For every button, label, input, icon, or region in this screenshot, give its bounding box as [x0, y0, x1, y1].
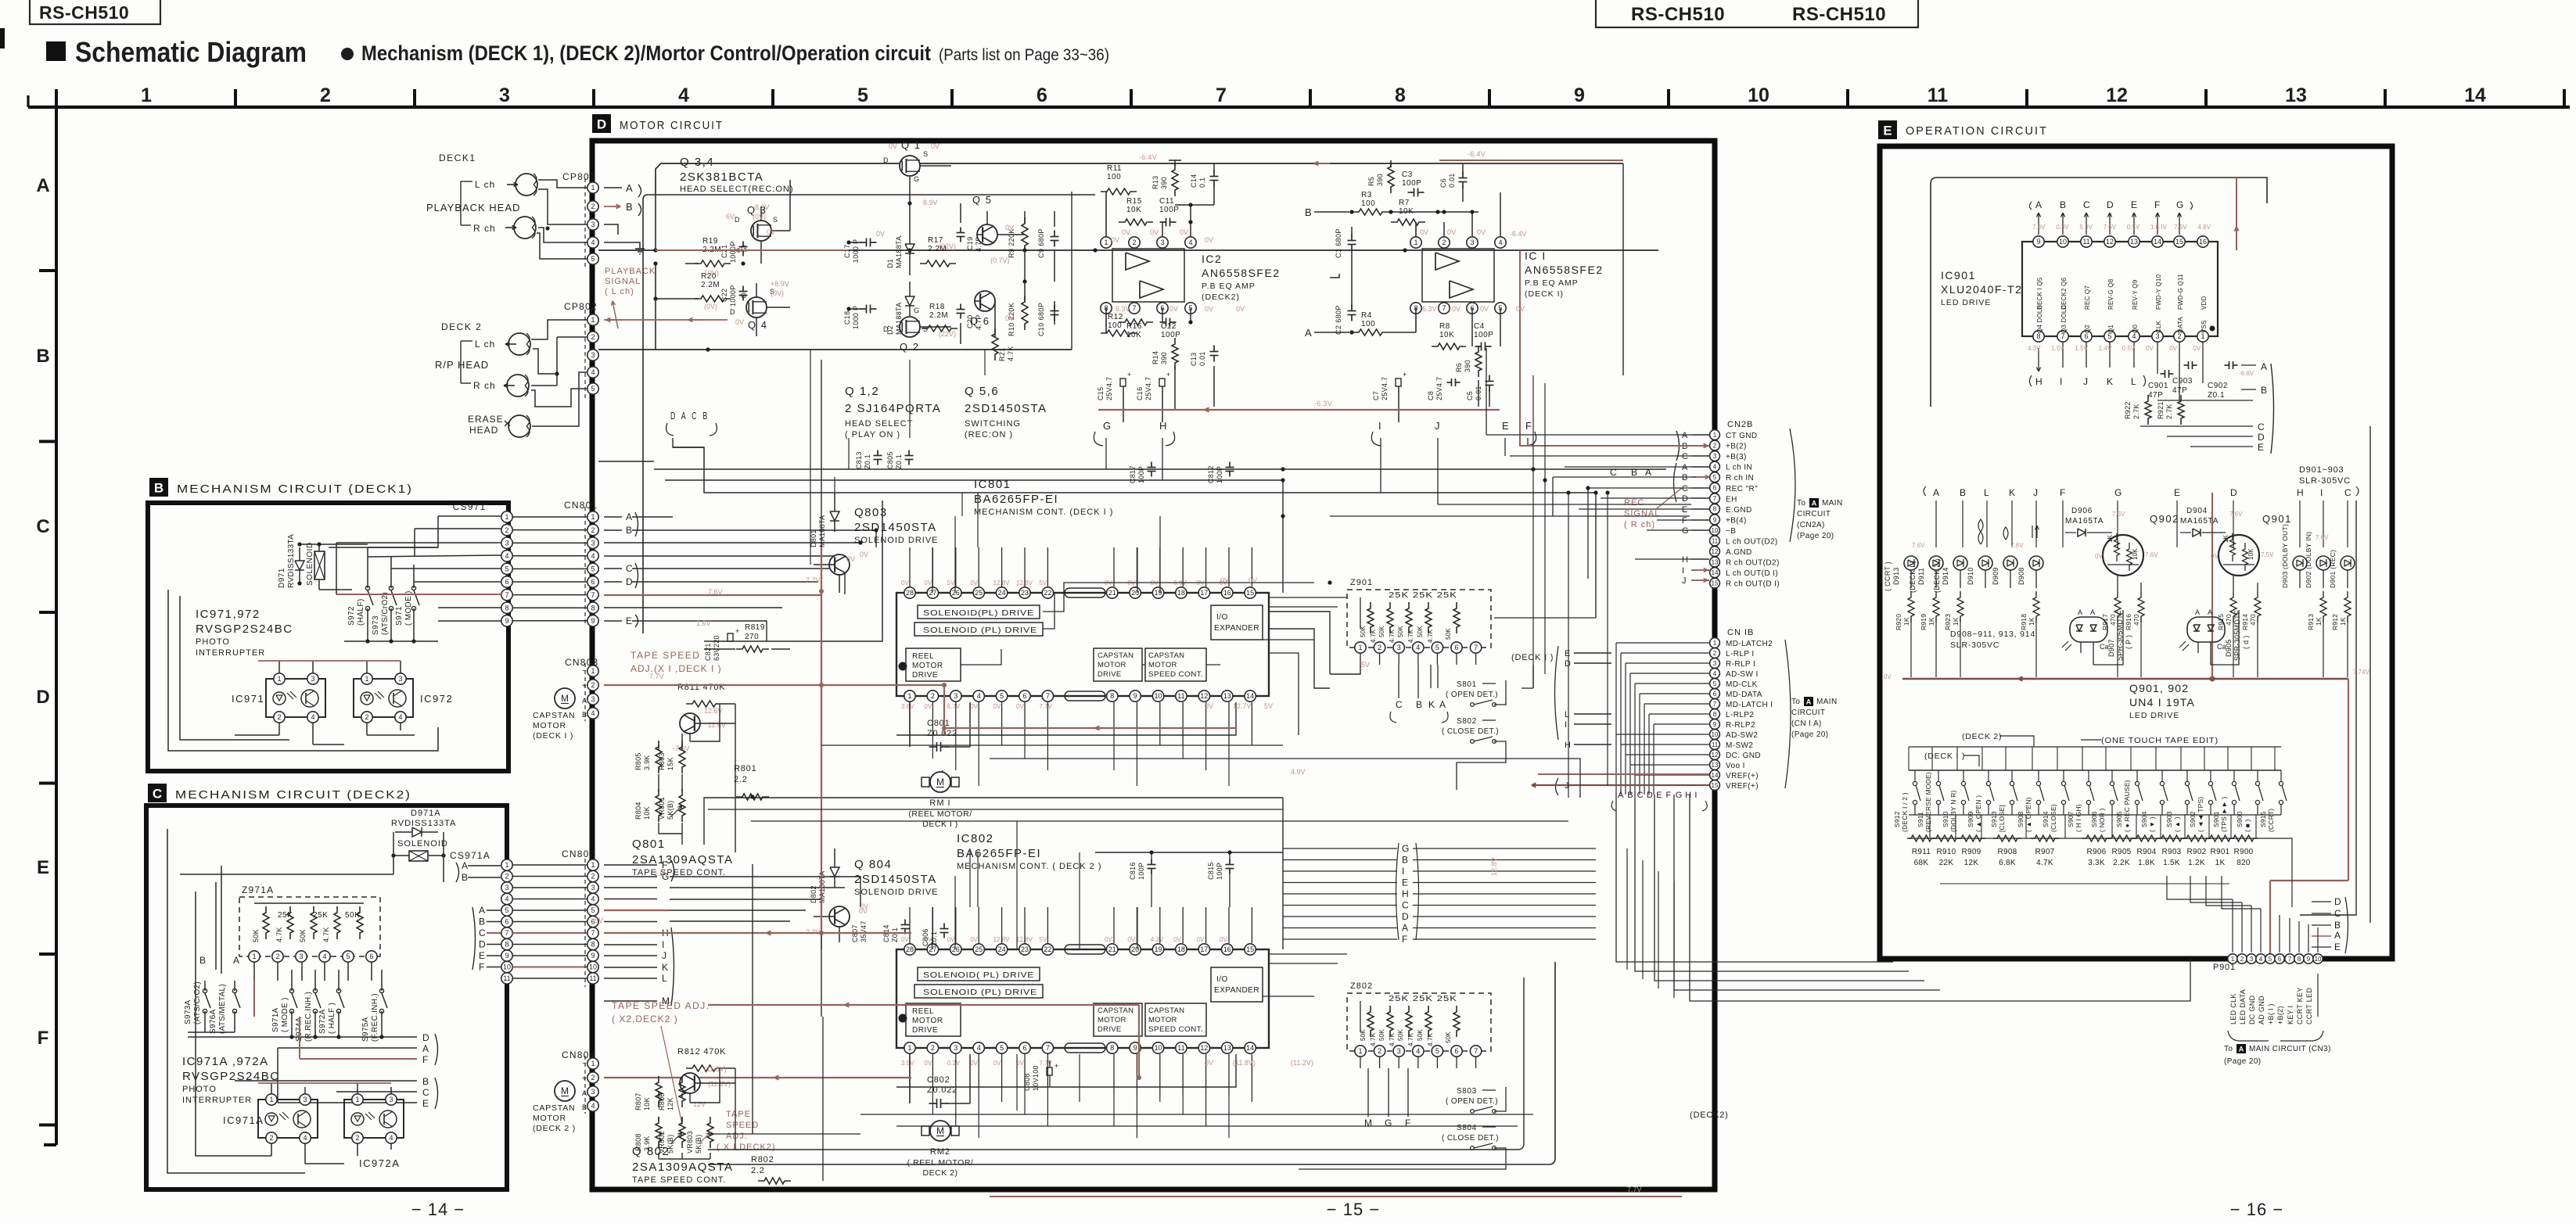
letters A-G above IC901	[2030, 199, 2193, 235]
svg-text:50K: 50K	[1445, 628, 1452, 640]
svg-text:0.01: 0.01	[1448, 173, 1456, 188]
svg-text:5: 5	[505, 565, 508, 573]
red arrow at CP802 pin1	[606, 318, 622, 321]
svg-text:C15: C15	[1097, 387, 1105, 400]
capacitor C15 25V4.7 / C16 25V4.7	[1097, 371, 1170, 422]
svg-text:16: 16	[2199, 238, 2207, 246]
svg-text:(DECK I): (DECK I)	[1525, 289, 1564, 299]
svg-text:4: 4	[591, 368, 595, 376]
svg-text:4: 4	[678, 84, 689, 106]
svg-text:4.7K: 4.7K	[1427, 629, 1434, 643]
svg-text:K: K	[2009, 487, 2015, 498]
svg-text:R916: R916	[2125, 614, 2132, 630]
top ruler ticks and numbers	[28, 84, 2570, 107]
svg-text:R921: R921	[2157, 401, 2165, 419]
svg-text:0V: 0V	[1480, 305, 1489, 313]
svg-text:S803: S803	[1457, 1087, 1477, 1096]
switch S912 (DECK I / 2 )	[1893, 770, 1920, 832]
subtitle Mechanism/Motor Control/Operation circuit	[341, 41, 1109, 65]
svg-text:TAPE SPEED CONT.: TAPE SPEED CONT.	[632, 1175, 726, 1185]
svg-text:E: E	[2174, 487, 2180, 498]
svg-text:C801: C801	[927, 719, 950, 728]
svg-text:3: 3	[591, 221, 595, 228]
svg-text:I: I	[2060, 376, 2062, 387]
svg-text:0.5V: 0.5V	[2127, 224, 2140, 231]
svg-text:I: I	[1682, 566, 1684, 576]
svg-text:2SD1450STA: 2SD1450STA	[965, 402, 1047, 415]
svg-text:15: 15	[1712, 782, 1719, 789]
svg-text:C6: C6	[1439, 178, 1447, 188]
svg-text:9: 9	[2036, 238, 2040, 246]
svg-text:C821: C821	[704, 643, 712, 661]
diode D1 MA188TA	[886, 177, 914, 275]
svg-text:0V: 0V	[1005, 314, 1014, 322]
connector CN802	[562, 848, 598, 984]
wires CS971 to CN801	[512, 517, 587, 621]
svg-text:VSS: VSS	[2201, 320, 2208, 333]
resistor R804 10K	[634, 789, 662, 822]
svg-text:R908: R908	[1997, 848, 2017, 856]
svg-text:6: 6	[505, 918, 508, 926]
svg-text:4: 4	[1713, 670, 1717, 677]
svg-text:R3: R3	[1361, 191, 1372, 199]
svg-text:15K: 15K	[666, 757, 674, 770]
svg-text:SLR-305VC: SLR-305VC	[2299, 476, 2351, 486]
resistor R6 390	[1455, 346, 1482, 377]
wire rail B row y447	[598, 347, 1072, 351]
svg-text:DATA: DATA	[2177, 317, 2184, 333]
svg-text:S973: S973	[372, 615, 380, 635]
LED D913 (CCRT)	[1884, 556, 1918, 591]
svg-text:G: G	[2176, 199, 2183, 210]
svg-text:2: 2	[931, 1044, 935, 1052]
svg-text:S973A: S973A	[184, 999, 192, 1024]
svg-text:E: E	[1656, 791, 1662, 800]
svg-text:Z0.1: Z0.1	[891, 927, 899, 942]
svg-text:( ■ ): ( ■ )	[2244, 819, 2251, 832]
wires IC2 area	[1106, 192, 1214, 411]
svg-text:4: 4	[591, 1102, 595, 1110]
svg-text:(CN I A): (CN I A)	[1791, 719, 1822, 728]
svg-text:DECK 2): DECK 2)	[923, 1168, 958, 1178]
switch S972 (HALF)	[347, 586, 373, 626]
svg-text:C21: C21	[720, 245, 728, 258]
wires playback head to CP801	[537, 180, 587, 259]
svg-text:C: C	[2344, 487, 2351, 498]
svg-text:50K: 50K	[252, 929, 260, 942]
diode D971 RVDISS133TA	[278, 534, 304, 588]
box E frame	[1880, 146, 2392, 959]
svg-text:A: A	[36, 175, 49, 196]
svg-text:(DECK I / 2 ): (DECK I / 2 )	[1901, 792, 1909, 832]
svg-text:D: D	[2334, 896, 2341, 907]
svg-text:S902: S902	[2189, 811, 2197, 827]
wires Z971A pins to switches	[205, 963, 382, 1017]
svg-text:CAPSTAN: CAPSTAN	[1098, 651, 1134, 660]
svg-text:2: 2	[591, 1074, 595, 1082]
svg-text:68K: 68K	[1914, 859, 1929, 867]
resistor R902 1.2K	[2183, 835, 2211, 867]
svg-text:-7.6V: -7.6V	[673, 744, 690, 752]
red trace mid rail y524	[1098, 308, 1500, 422]
trimmer VR802 5K(B)	[658, 1117, 685, 1153]
svg-text:I/O: I/O	[1216, 975, 1228, 984]
svg-text:25V4.7: 25V4.7	[1435, 377, 1443, 400]
svg-text:6: 6	[1037, 84, 1047, 106]
svg-text:2: 2	[1132, 239, 1136, 246]
svg-text:7.5V: 7.5V	[2261, 551, 2274, 558]
svg-text:( OPEN DET.): ( OPEN DET.)	[1446, 1097, 1498, 1106]
svg-text:R ch OUT(D2): R ch OUT(D2)	[1726, 559, 1780, 568]
svg-text:R21: R21	[998, 348, 1006, 361]
svg-text:R805: R805	[634, 752, 642, 770]
svg-text:D: D	[1682, 494, 1688, 504]
svg-text:L ch OUT(D2): L ch OUT(D2)	[1726, 538, 1778, 547]
svg-text:12: 12	[1712, 752, 1719, 759]
svg-text:1: 1	[1713, 640, 1717, 647]
svg-text:Z901: Z901	[1350, 578, 1373, 587]
resistor R21 4.7K	[992, 328, 1015, 361]
wire bus CN801 to IC801	[673, 517, 896, 641]
svg-text:4: 4	[977, 692, 981, 700]
svg-text:3: 3	[1397, 644, 1401, 651]
wire bus CN802 to IC802	[604, 865, 896, 949]
svg-text:Q 4: Q 4	[748, 319, 767, 331]
svg-text:R803: R803	[658, 752, 666, 770]
svg-text:0V: 0V	[1205, 702, 1213, 710]
resistor R904 1.8K	[2132, 835, 2161, 867]
svg-text:0V: 0V	[1477, 228, 1486, 236]
LED D902 (DOLBY IN)	[2305, 532, 2330, 588]
svg-text:21: 21	[1108, 589, 1116, 597]
resistor R803 15K	[658, 741, 685, 773]
svg-text:Q801: Q801	[632, 838, 666, 851]
svg-text:TAPE SPEED: TAPE SPEED	[631, 650, 700, 661]
svg-text:REV-Y Q9: REV-Y Q9	[2132, 279, 2139, 310]
svg-text:0V: 0V	[1122, 228, 1130, 236]
svg-text:4.7K: 4.7K	[322, 927, 330, 942]
svg-text:IC801: IC801	[974, 478, 1011, 491]
IC802 BA6265FP-EI body	[896, 944, 1269, 1053]
svg-text:R900: R900	[2233, 848, 2253, 856]
svg-text:RVSGP2S24BC: RVSGP2S24BC	[196, 622, 293, 636]
switch S913 [CLOSE]	[1990, 770, 2017, 832]
svg-text:20: 20	[1131, 589, 1139, 597]
svg-text:12: 12	[2106, 84, 2128, 106]
svg-text:0V: 0V	[846, 555, 855, 563]
svg-text:C14: C14	[1190, 174, 1198, 188]
svg-text:A: A	[2261, 361, 2267, 372]
wire mid long horizontals	[821, 745, 1715, 798]
svg-text:0V: 0V	[1111, 236, 1119, 244]
svg-text:4: 4	[591, 552, 595, 560]
svg-text:17: 17	[1200, 945, 1208, 953]
svg-text:0V: 0V	[1205, 236, 1213, 244]
svg-text:12.7V: 12.7V	[1233, 702, 1252, 710]
svg-text:C: C	[2083, 199, 2090, 210]
svg-text:( CCRT ): ( CCRT )	[1884, 561, 1892, 591]
connector P901	[2213, 954, 2323, 972]
svg-text:1: 1	[252, 953, 256, 960]
svg-text:CAPSTAN: CAPSTAN	[1098, 1006, 1134, 1015]
svg-text:13: 13	[1712, 558, 1719, 565]
svg-text:-6.4V: -6.4V	[1510, 230, 1527, 238]
red trace vertical x1050	[819, 547, 824, 935]
svg-text:ERASE: ERASE	[468, 414, 504, 425]
svg-text:F: F	[38, 1028, 49, 1049]
svg-text:0.2V: 0.2V	[947, 1060, 961, 1067]
svg-text:0V: 0V	[924, 1060, 932, 1067]
svg-text:4: 4	[591, 895, 595, 903]
svg-text:0V: 0V	[993, 1060, 1001, 1067]
svg-text:I/O: I/O	[1216, 613, 1228, 622]
svg-text:2: 2	[591, 526, 595, 534]
voltage labels sprinkle mid	[595, 555, 1498, 1067]
wire rail y660 and y675	[835, 477, 1690, 583]
wires IC801 bottom pin stubs	[910, 702, 1252, 743]
svg-text:E: E	[1682, 505, 1687, 515]
svg-text:(0V): (0V)	[704, 303, 717, 310]
motor capstan deck1	[555, 671, 585, 709]
svg-text:R ch IN: R ch IN	[1726, 474, 1754, 483]
vertical bus lines left of CN1B	[1616, 643, 1654, 795]
svg-text:C12: C12	[1161, 322, 1177, 331]
svg-text:B: B	[199, 955, 206, 966]
svg-text:13: 13	[2285, 84, 2307, 106]
motor RM2 (REEL MOTOR/DECK2)	[907, 1121, 974, 1178]
svg-text:(DECK I ): (DECK I )	[533, 731, 573, 741]
svg-text:7: 7	[1442, 304, 1446, 312]
svg-text:L ch OUT(D I): L ch OUT(D I)	[1726, 569, 1778, 578]
svg-text:C806: C806	[922, 928, 929, 946]
transistor Q801 cluster	[673, 707, 726, 752]
svg-text:C5: C5	[1466, 391, 1474, 400]
svg-text:(CN2A): (CN2A)	[1797, 521, 1825, 529]
svg-text:7: 7	[591, 929, 595, 937]
svg-text:10: 10	[503, 963, 511, 971]
svg-text:C: C	[422, 1087, 429, 1098]
transistor Q2 2SJ164PQRTA	[883, 307, 928, 353]
svg-text:To: To	[2224, 1045, 2233, 1053]
wires Q3/Q4 cluster	[653, 180, 790, 350]
svg-text:2.2M: 2.2M	[929, 311, 948, 320]
svg-text:1K: 1K	[2107, 534, 2114, 543]
svg-text:3: 3	[1713, 660, 1717, 667]
svg-text:6: 6	[369, 953, 373, 960]
svg-text:A: A	[2239, 1045, 2244, 1053]
svg-text:S900: S900	[2236, 811, 2244, 827]
resistor R5 390 / cap C3 100P	[1367, 160, 1425, 197]
svg-text:MD-LATCH I: MD-LATCH I	[1726, 701, 1773, 709]
svg-text:S901: S901	[2212, 811, 2220, 827]
svg-text:I: I	[1694, 791, 1697, 800]
svg-text:12K: 12K	[1964, 859, 1979, 867]
svg-text:L: L	[662, 973, 667, 984]
svg-text:4: 4	[1188, 239, 1192, 246]
svg-text:7.6V: 7.6V	[1912, 542, 1925, 549]
svg-text:7.7V: 7.7V	[806, 576, 821, 584]
left ruler letters A-F	[36, 107, 56, 1145]
svg-text:10: 10	[1155, 1044, 1162, 1052]
dashed connector outline CP801/CP802	[584, 178, 586, 400]
svg-text:C901: C901	[2148, 382, 2168, 390]
svg-text:RVDISS133TA: RVDISS133TA	[391, 819, 456, 828]
svg-text:5: 5	[857, 84, 868, 106]
svg-text:L ch: L ch	[475, 339, 495, 350]
LED D908	[2017, 526, 2043, 585]
wires CS971A to CN802	[512, 865, 587, 978]
svg-text:A: A	[2334, 930, 2341, 941]
capacitor C19 4.7P	[957, 228, 983, 253]
svg-text:K: K	[2107, 376, 2113, 387]
svg-text:S801: S801	[1457, 680, 1477, 689]
svg-text:B: B	[626, 525, 632, 536]
svg-text:(DECK I ): (DECK I )	[1909, 561, 1917, 593]
svg-text:10: 10	[1748, 84, 1769, 106]
IC901 voltage labels top	[2032, 224, 2211, 231]
diode D801 MA188TA	[810, 493, 839, 547]
svg-text:2SK381BCTA: 2SK381BCTA	[680, 170, 763, 184]
resistor R910 22K	[1932, 835, 1960, 867]
svg-text:S913: S913	[1990, 811, 1998, 827]
svg-text:LED DRIVE: LED DRIVE	[1941, 298, 1991, 307]
svg-text:0V: 0V	[947, 936, 955, 943]
svg-text:K: K	[1428, 699, 1435, 710]
svg-text:0V: 0V	[767, 228, 775, 236]
svg-text:L ch: L ch	[475, 179, 495, 190]
svg-text:12V: 12V	[693, 1100, 706, 1108]
svg-text:F: F	[1402, 934, 1407, 945]
svg-text:7: 7	[505, 929, 508, 937]
svg-text:100P: 100P	[1216, 863, 1223, 880]
label DECK 2	[441, 321, 482, 332]
svg-text:D: D	[1565, 659, 1571, 669]
switch S975A (F.REC.INH.)	[361, 988, 387, 1042]
svg-text:4.7K: 4.7K	[1389, 1032, 1396, 1046]
svg-text:0V: 0V	[735, 318, 744, 326]
svg-text:(Page 20): (Page 20)	[2224, 1057, 2262, 1066]
svg-text:MD-CLK: MD-CLK	[1726, 680, 1758, 689]
label PLAYBACK HEAD	[426, 202, 520, 213]
svg-text:M-SW2: M-SW2	[1726, 741, 1753, 750]
box C frame	[146, 805, 507, 1189]
svg-text:1: 1	[1104, 239, 1108, 246]
svg-text:Q 3,4: Q 3,4	[680, 156, 714, 169]
svg-text:A: A	[422, 1043, 429, 1054]
wire IC801 right pins to Z901	[1263, 590, 1347, 688]
svg-text:2: 2	[1713, 442, 1717, 449]
svg-text:24: 24	[998, 589, 1006, 597]
svg-text:S802: S802	[1457, 717, 1477, 726]
wire bus upper mid	[598, 192, 1283, 1017]
IC801 sub-box CAPSTAN MOTOR SPEED CONT	[1145, 648, 1206, 681]
svg-text:S912: S912	[1893, 811, 1901, 827]
svg-text:35V47: 35V47	[860, 920, 868, 942]
svg-text:PHOTO: PHOTO	[196, 637, 230, 647]
svg-text:(DECK 2 ): (DECK 2 )	[533, 1124, 576, 1133]
wires RP head to CP802	[531, 314, 593, 426]
svg-text:390: 390	[1376, 174, 1384, 186]
svg-text:3: 3	[1470, 239, 1474, 246]
svg-text:E: E	[1402, 877, 1408, 888]
svg-text:3: 3	[1160, 239, 1164, 246]
svg-text:7.6V: 7.6V	[2104, 224, 2117, 231]
resistor R10 220K / cap C10 680P	[1008, 296, 1059, 336]
svg-text:C813: C813	[855, 451, 863, 469]
resistor R7 10K	[1389, 194, 1444, 225]
label (DECK2) switch row	[1962, 732, 2034, 747]
svg-text:50K: 50K	[345, 911, 360, 920]
capacitor C17 1000P	[843, 239, 877, 264]
svg-text:28: 28	[906, 945, 914, 953]
svg-text:1: 1	[269, 1096, 273, 1103]
svg-text:(REEL MOTOR/: (REEL MOTOR/	[908, 809, 972, 819]
box D frame	[592, 141, 1715, 1189]
svg-text:J: J	[1435, 420, 1440, 432]
red trace CN804 pin2 rail	[604, 1075, 911, 1079]
svg-text:11: 11	[1712, 741, 1719, 748]
svg-text:25K: 25K	[278, 911, 293, 920]
svg-text:(REVERSE MODE): (REVERSE MODE)	[1924, 772, 1932, 832]
LED D903 (DOLBY OUT)	[2281, 524, 2307, 588]
svg-text:S915: S915	[2259, 811, 2267, 827]
svg-text:3: 3	[311, 675, 314, 683]
wire solenoid drive outputs IC801	[961, 583, 1314, 735]
letters D A C B below Q4	[666, 410, 717, 447]
svg-text:7.7V: 7.7V	[1039, 703, 1052, 710]
svg-text:470: 470	[2109, 614, 2117, 626]
svg-text:2: 2	[355, 1134, 359, 1142]
wires Q802 cluster	[659, 1068, 735, 1159]
P901 pin labels	[2229, 974, 2318, 1024]
label (ONE TOUCH TAPE EDIT)	[2081, 736, 2219, 745]
svg-text:3: 3	[1397, 1047, 1401, 1055]
svg-text:C: C	[36, 516, 49, 537]
svg-text:1: 1	[907, 692, 911, 700]
svg-text:10: 10	[1712, 527, 1719, 534]
svg-text:TAPE SPEED CONT.: TAPE SPEED CONT.	[632, 868, 726, 877]
svg-text:B: B	[422, 1076, 429, 1087]
svg-text:DECK I Q5: DECK I Q5	[2036, 277, 2043, 310]
svg-text:C11: C11	[1159, 197, 1174, 206]
label D904 MA165TA	[2180, 507, 2226, 536]
svg-text:D910: D910	[1967, 567, 1974, 585]
svg-text:G: G	[914, 307, 919, 314]
svg-text:S911: S911	[1917, 812, 1924, 827]
svg-text:0V: 0V	[924, 703, 932, 710]
svg-text:F: F	[2060, 487, 2065, 498]
letters F G H I J K L M at CN802	[604, 859, 674, 1006]
letter B / resistor R3 100	[1305, 191, 1478, 218]
wires photo interrupters box B	[235, 661, 415, 744]
svg-text:I: I	[1402, 866, 1404, 877]
svg-text:2.2: 2.2	[734, 775, 748, 784]
svg-text:(DECK 2 ): (DECK 2 )	[1933, 558, 1941, 593]
svg-text:(HALF): (HALF)	[357, 598, 365, 626]
svg-text:SIGNAL: SIGNAL	[1624, 509, 1660, 518]
svg-text:1.5V: 1.5V	[2051, 345, 2064, 352]
svg-text:CCRT LED: CCRT LED	[2305, 988, 2313, 1024]
svg-text:8: 8	[1395, 84, 1406, 106]
red trace IC801 right to Z901	[944, 685, 1236, 735]
svg-text:3: 3	[954, 1044, 957, 1052]
svg-text:SOLENOID DRIVE: SOLENOID DRIVE	[854, 536, 939, 545]
svg-text:25K: 25K	[313, 911, 328, 920]
svg-text:1.6V: 1.6V	[696, 619, 711, 627]
svg-text:50K: 50K	[299, 929, 307, 942]
wires CP801 pins 3-5	[604, 224, 645, 254]
svg-text:( X2,DECK2 ): ( X2,DECK2 )	[612, 1014, 678, 1024]
